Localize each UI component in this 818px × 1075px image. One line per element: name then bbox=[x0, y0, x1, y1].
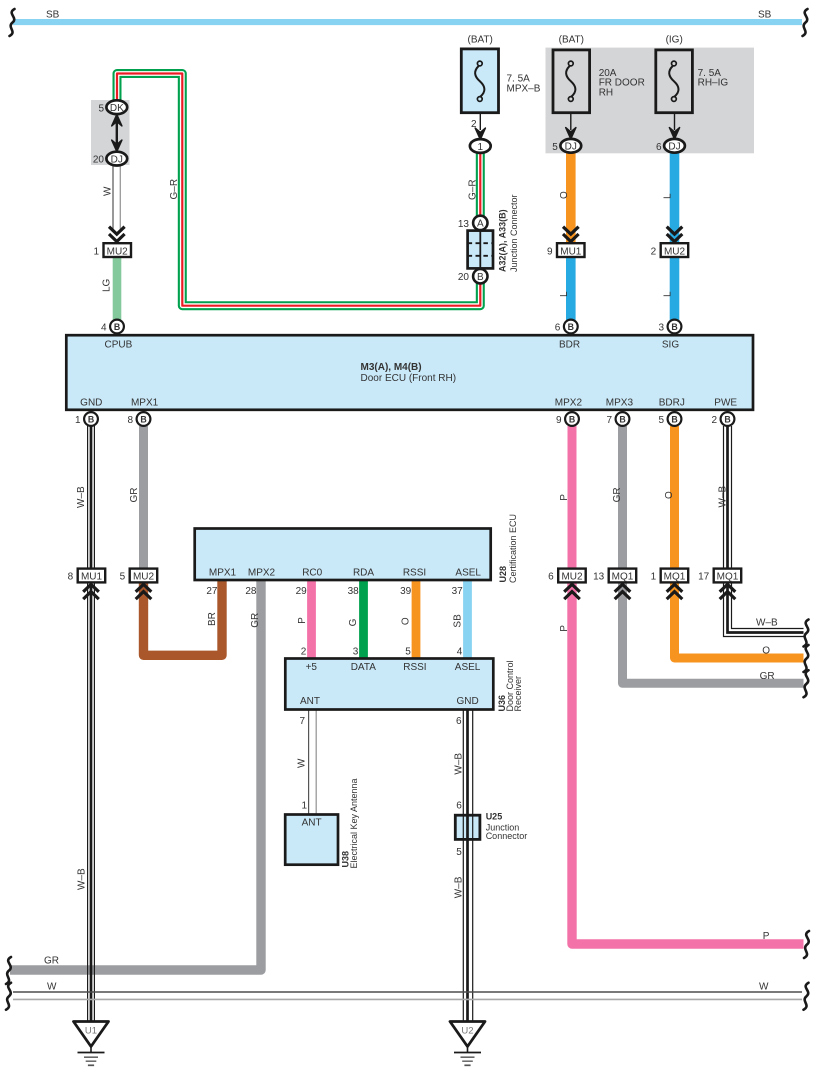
svg-text:17: 17 bbox=[698, 572, 710, 583]
svg-text:7: 7 bbox=[606, 415, 612, 426]
svg-text:9: 9 bbox=[547, 246, 553, 257]
svg-text:L: L bbox=[663, 291, 674, 297]
svg-text:A: A bbox=[477, 219, 484, 230]
svg-text:DK: DK bbox=[110, 103, 124, 114]
svg-text:O: O bbox=[559, 191, 570, 199]
svg-text:W–B: W–B bbox=[76, 486, 87, 508]
svg-text:6: 6 bbox=[456, 716, 462, 727]
svg-text:W: W bbox=[297, 758, 308, 768]
svg-text:4: 4 bbox=[101, 323, 107, 334]
svg-text:L: L bbox=[559, 291, 570, 297]
svg-text:5: 5 bbox=[98, 103, 104, 114]
svg-text:29: 29 bbox=[296, 586, 308, 597]
svg-text:5: 5 bbox=[658, 415, 664, 426]
svg-text:RSSI: RSSI bbox=[403, 568, 426, 579]
svg-text:MPX3: MPX3 bbox=[606, 398, 634, 409]
svg-text:L: L bbox=[663, 193, 674, 199]
svg-text:+5: +5 bbox=[306, 662, 318, 673]
svg-text:6: 6 bbox=[555, 323, 561, 334]
svg-text:SIG: SIG bbox=[662, 339, 679, 350]
svg-text:20: 20 bbox=[93, 155, 105, 166]
svg-text:SB: SB bbox=[452, 614, 463, 628]
svg-text:5: 5 bbox=[456, 847, 462, 858]
svg-text:5: 5 bbox=[120, 572, 126, 583]
svg-text:Certification ECU: Certification ECU bbox=[508, 514, 518, 583]
svg-text:2: 2 bbox=[711, 415, 717, 426]
svg-text:BDR: BDR bbox=[559, 339, 580, 350]
svg-text:MPX–B: MPX–B bbox=[507, 84, 541, 95]
svg-text:39: 39 bbox=[400, 586, 412, 597]
svg-text:W: W bbox=[102, 186, 113, 196]
svg-text:GND: GND bbox=[80, 398, 102, 409]
svg-text:37: 37 bbox=[452, 586, 464, 597]
svg-text:P: P bbox=[763, 931, 770, 942]
svg-text:U2: U2 bbox=[461, 1026, 473, 1037]
svg-text:4: 4 bbox=[457, 646, 463, 657]
svg-text:MU2: MU2 bbox=[664, 246, 686, 257]
svg-text:13: 13 bbox=[458, 219, 470, 230]
svg-text:3: 3 bbox=[353, 646, 359, 657]
svg-text:13: 13 bbox=[593, 572, 605, 583]
svg-text:P: P bbox=[559, 494, 570, 501]
svg-text:DJ: DJ bbox=[111, 154, 123, 165]
svg-text:(BAT): (BAT) bbox=[559, 35, 584, 46]
svg-text:MPX1: MPX1 bbox=[209, 568, 237, 579]
svg-text:MU2: MU2 bbox=[561, 572, 583, 583]
svg-text:W–B: W–B bbox=[77, 868, 88, 890]
svg-text:Connector: Connector bbox=[486, 831, 528, 841]
svg-text:1: 1 bbox=[75, 415, 81, 426]
svg-text:W–B: W–B bbox=[453, 876, 464, 898]
svg-text:MPX2: MPX2 bbox=[248, 568, 276, 579]
svg-text:W–B: W–B bbox=[756, 618, 778, 629]
svg-text:B: B bbox=[477, 272, 484, 283]
svg-text:2: 2 bbox=[301, 646, 307, 657]
svg-text:U28: U28 bbox=[498, 566, 508, 583]
svg-text:Door ECU (Front RH): Door ECU (Front RH) bbox=[361, 373, 457, 384]
svg-text:BDRJ: BDRJ bbox=[659, 398, 685, 409]
svg-text:1: 1 bbox=[478, 142, 484, 153]
svg-text:RH–IG: RH–IG bbox=[698, 78, 729, 89]
svg-text:MU1: MU1 bbox=[81, 572, 103, 583]
svg-text:ASEL: ASEL bbox=[455, 662, 481, 673]
svg-text:3: 3 bbox=[658, 323, 664, 334]
svg-text:5: 5 bbox=[552, 142, 558, 153]
svg-text:M3(A), M4(B): M3(A), M4(B) bbox=[361, 362, 422, 373]
svg-text:O: O bbox=[664, 491, 675, 499]
svg-text:RDA: RDA bbox=[353, 568, 374, 579]
svg-text:27: 27 bbox=[206, 586, 218, 597]
svg-text:PWE: PWE bbox=[714, 398, 737, 409]
svg-text:RSSI: RSSI bbox=[403, 662, 426, 673]
svg-text:LG: LG bbox=[102, 278, 113, 292]
svg-text:W: W bbox=[47, 981, 57, 992]
svg-text:U1: U1 bbox=[85, 1026, 97, 1037]
svg-text:GR: GR bbox=[44, 956, 59, 967]
svg-text:MU1: MU1 bbox=[560, 246, 582, 257]
svg-text:1: 1 bbox=[93, 246, 99, 257]
svg-text:W–B: W–B bbox=[453, 753, 464, 775]
svg-text:SB: SB bbox=[46, 9, 60, 20]
svg-text:6: 6 bbox=[548, 572, 554, 583]
svg-text:DJ: DJ bbox=[668, 142, 680, 153]
svg-text:O: O bbox=[400, 617, 411, 625]
svg-text:GR: GR bbox=[129, 488, 140, 503]
svg-text:GND: GND bbox=[456, 696, 478, 707]
svg-text:1: 1 bbox=[651, 572, 657, 583]
svg-text:9: 9 bbox=[556, 415, 562, 426]
svg-text:RC0: RC0 bbox=[302, 568, 322, 579]
svg-text:DATA: DATA bbox=[351, 662, 377, 673]
svg-text:MQ1: MQ1 bbox=[717, 572, 739, 583]
svg-text:ANT: ANT bbox=[300, 696, 320, 707]
svg-text:MPX2: MPX2 bbox=[555, 398, 583, 409]
svg-text:BR: BR bbox=[207, 612, 218, 626]
svg-text:6: 6 bbox=[656, 142, 662, 153]
svg-text:CPUB: CPUB bbox=[105, 339, 133, 350]
svg-text:Junction Connector: Junction Connector bbox=[509, 194, 519, 272]
svg-text:MU2: MU2 bbox=[107, 246, 129, 257]
svg-text:P: P bbox=[297, 617, 308, 624]
svg-text:(BAT): (BAT) bbox=[468, 35, 493, 46]
svg-text:Receiver: Receiver bbox=[513, 676, 523, 712]
svg-text:A32(A), A33(B): A32(A), A33(B) bbox=[497, 209, 507, 272]
svg-text:MQ1: MQ1 bbox=[612, 572, 634, 583]
svg-text:DJ: DJ bbox=[565, 142, 577, 153]
svg-text:U25: U25 bbox=[486, 811, 503, 821]
svg-text:GR: GR bbox=[250, 613, 261, 628]
svg-text:G: G bbox=[348, 618, 359, 626]
svg-text:W: W bbox=[759, 981, 769, 992]
svg-text:2: 2 bbox=[651, 246, 657, 257]
svg-text:20: 20 bbox=[458, 272, 470, 283]
svg-text:GR: GR bbox=[760, 671, 775, 682]
svg-text:MU2: MU2 bbox=[133, 572, 155, 583]
svg-text:W–B: W–B bbox=[717, 486, 728, 508]
svg-text:Electrical Key Antenna: Electrical Key Antenna bbox=[349, 778, 359, 868]
svg-text:SB: SB bbox=[758, 9, 772, 20]
svg-text:MQ1: MQ1 bbox=[664, 572, 686, 583]
svg-text:MPX1: MPX1 bbox=[131, 398, 159, 409]
svg-text:8: 8 bbox=[68, 572, 74, 583]
svg-text:7: 7 bbox=[299, 716, 305, 727]
svg-text:6: 6 bbox=[456, 801, 462, 812]
svg-text:O: O bbox=[762, 646, 770, 657]
svg-text:P: P bbox=[559, 625, 570, 632]
svg-text:1: 1 bbox=[301, 801, 307, 812]
svg-text:ANT: ANT bbox=[302, 817, 322, 828]
svg-text:RH: RH bbox=[599, 87, 613, 98]
svg-text:GR: GR bbox=[612, 487, 623, 502]
svg-text:G–R: G–R bbox=[169, 179, 180, 200]
svg-text:G–R: G–R bbox=[467, 179, 478, 200]
svg-text:28: 28 bbox=[245, 586, 257, 597]
svg-text:ASEL: ASEL bbox=[455, 568, 481, 579]
svg-text:38: 38 bbox=[348, 586, 360, 597]
svg-text:8: 8 bbox=[127, 415, 133, 426]
svg-text:(IG): (IG) bbox=[666, 35, 683, 46]
svg-text:5: 5 bbox=[405, 646, 411, 657]
